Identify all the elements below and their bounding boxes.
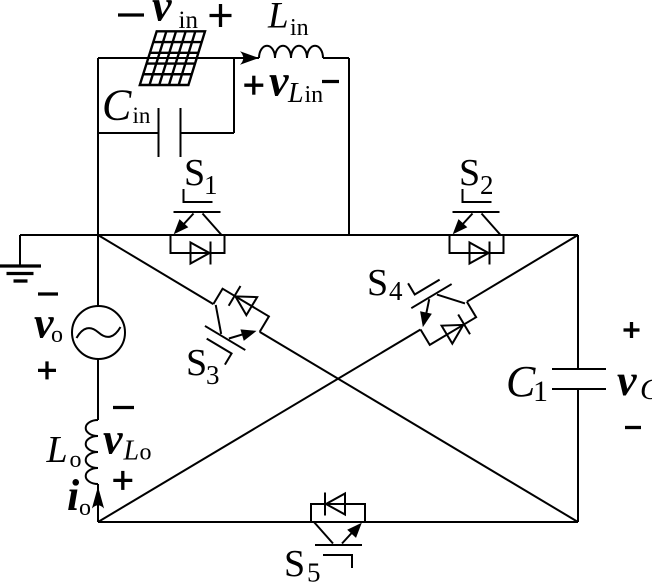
wire right column upper <box>577 235 579 369</box>
label io <box>67 471 91 521</box>
label vLo <box>103 408 152 490</box>
svg-text:in: in <box>305 82 324 108</box>
label S2 <box>459 152 494 200</box>
svg-text:v: v <box>103 415 123 464</box>
svg-text:S: S <box>367 262 388 304</box>
wire diagonal A lower (S3 to bottom-right) <box>260 332 578 522</box>
svg-text:o: o <box>140 440 152 466</box>
wire Cin right <box>180 132 234 134</box>
svg-text:o: o <box>79 495 91 521</box>
svg-text:o: o <box>70 447 82 473</box>
wire diagonal A upper (top-left to S3) <box>98 235 213 304</box>
input current arrow <box>240 51 259 65</box>
capacitor Cin <box>159 108 181 157</box>
svg-text:in: in <box>290 15 309 41</box>
wire diagonal B upper (S4 to top-right) <box>467 235 578 302</box>
label Cin <box>102 81 151 130</box>
wire top input left <box>98 57 259 59</box>
wire top input right <box>323 57 349 59</box>
svg-text:in: in <box>179 7 199 34</box>
wire top bus <box>20 234 578 236</box>
svg-text:S: S <box>186 342 207 384</box>
io current arrow <box>92 487 104 509</box>
switch S1 <box>171 189 225 265</box>
label vLin <box>244 57 339 110</box>
svg-text:S: S <box>184 152 205 194</box>
wire Cin left <box>98 132 158 134</box>
wire right column lower <box>577 389 579 522</box>
source vo <box>72 306 125 359</box>
svg-text:2: 2 <box>480 170 494 200</box>
wire bottom bus <box>98 521 578 523</box>
svg-text:v: v <box>269 57 289 106</box>
svg-text:L: L <box>287 78 304 109</box>
svg-text:S: S <box>459 152 480 194</box>
wire diagonal B lower (bottom-left to S4) <box>98 330 421 523</box>
svg-text:o: o <box>51 322 63 348</box>
label S3 <box>186 342 220 390</box>
label vC <box>617 322 652 428</box>
ground <box>0 235 41 281</box>
svg-text:C: C <box>102 81 132 130</box>
inductor Lo <box>86 420 98 484</box>
switch S3 <box>190 279 275 372</box>
svg-text:3: 3 <box>206 360 220 390</box>
wire input right drop <box>348 58 350 235</box>
svg-text:L: L <box>267 0 289 37</box>
label vin <box>118 0 232 34</box>
svg-text:L: L <box>46 429 68 471</box>
switch S2 <box>450 189 504 265</box>
label Lin <box>267 0 309 41</box>
svg-text:v: v <box>617 356 637 405</box>
wire left column bottom <box>97 484 99 522</box>
wire left column mid <box>97 359 99 420</box>
label S4 <box>367 262 403 306</box>
label S1 <box>184 152 218 200</box>
switch S4 <box>397 262 482 355</box>
svg-text:4: 4 <box>389 276 403 306</box>
svg-text:1: 1 <box>533 375 548 408</box>
svg-text:v: v <box>152 0 172 31</box>
inductor Lin <box>259 46 323 58</box>
svg-text:C: C <box>640 373 652 406</box>
switch S5 <box>311 493 365 569</box>
wire left column top (input side) <box>97 58 99 306</box>
svg-text:1: 1 <box>204 170 218 200</box>
label Lo <box>46 429 82 473</box>
svg-text:C: C <box>506 357 536 406</box>
label C1 <box>506 357 548 408</box>
wire Cin riser <box>233 58 235 133</box>
svg-text:in: in <box>133 103 151 128</box>
label vo <box>34 294 63 379</box>
capacitor C1 <box>552 369 606 389</box>
svg-text:5: 5 <box>307 558 321 583</box>
svg-text:L: L <box>123 436 140 467</box>
label S5 <box>284 543 321 583</box>
svg-text:S: S <box>284 543 305 583</box>
PV panel (vin source) <box>140 31 205 85</box>
